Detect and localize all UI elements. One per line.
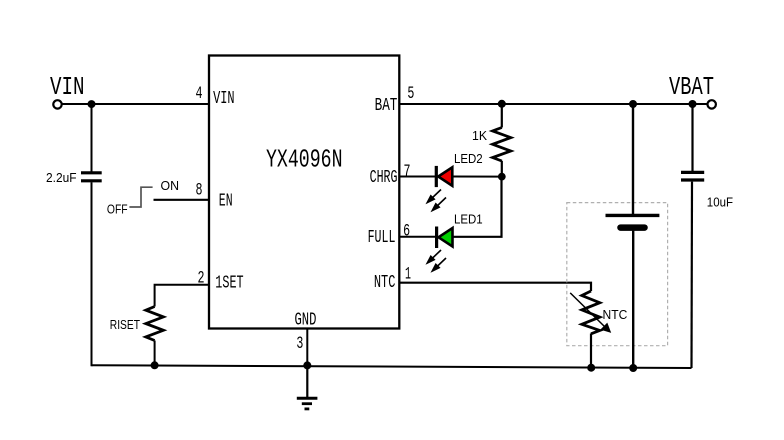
switch ON/OFF bracket	[129, 187, 152, 207]
wire battery bottom lead	[632, 231, 634, 368]
op-amp U1 : IC body YX4096N	[209, 56, 399, 329]
wire LED2 to junction	[452, 176, 502, 178]
svg-text:1: 1	[405, 264, 411, 284]
wire NTC pin 1 to thermistor	[399, 283, 591, 291]
wire FULL pin 6 to LED1	[399, 236, 435, 238]
svg-text:VIN: VIN	[213, 89, 235, 109]
svg-text:YX4096N: YX4096N	[266, 145, 343, 175]
svg-text:1K: 1K	[472, 129, 488, 143]
wire junction down to C1	[91, 104, 93, 172]
node VBAT terminal circle	[708, 100, 716, 108]
wire VIN terminal to pin 4	[62, 103, 209, 105]
resistor R1 1K zigzag	[493, 128, 511, 162]
node junction thermistor/rail	[587, 364, 595, 372]
svg-text:2.2uF: 2.2uF	[46, 171, 77, 185]
svg-text:8: 8	[196, 181, 203, 201]
svg-text:FULL: FULL	[368, 228, 396, 248]
node junction BAT/battery	[629, 100, 637, 108]
svg-text:LED2: LED2	[454, 152, 483, 166]
node junction battery/rail	[629, 364, 637, 372]
node junction RISET/rail	[151, 361, 159, 369]
wire GND pin 3 to rail	[306, 329, 308, 366]
wire BAT pin 5 to VBAT terminal	[399, 103, 707, 105]
wire battery top lead	[632, 104, 634, 214]
LED D2 emission arrows	[427, 190, 446, 211]
svg-text:6: 6	[403, 221, 410, 241]
wire CHRG pin 7 to LED2	[399, 176, 435, 178]
svg-text:EN: EN	[219, 191, 233, 211]
wire LED1 right then up to junction	[453, 177, 502, 237]
LED D1 emission arrows	[427, 250, 446, 271]
battery BT1 short thick plate	[621, 224, 645, 231]
LED D2 cathode bar	[435, 166, 438, 187]
capacitor C2 10uF plates	[681, 171, 704, 174]
svg-text:7: 7	[404, 162, 411, 182]
wire C2 bottom lead to rail	[690, 182, 693, 368]
node junction 1K/CHRG/FULL	[498, 173, 506, 181]
node junction BAT/1K	[498, 100, 506, 108]
wire C2 top lead	[691, 104, 693, 171]
wire 1SET pin 2	[155, 285, 209, 307]
svg-text:LED1: LED1	[454, 213, 483, 227]
ground symbol	[297, 365, 318, 409]
svg-text:2: 2	[198, 268, 205, 288]
svg-text:3: 3	[296, 334, 303, 354]
thermistor RT1 NTC zigzag	[582, 291, 600, 334]
wire EN pin 8	[154, 199, 210, 201]
thermistor diagonal arrow	[570, 293, 611, 333]
wire 1K bottom lead	[501, 161, 503, 177]
wire thermistor to rail	[590, 334, 592, 368]
svg-text:BAT: BAT	[375, 96, 398, 116]
svg-text:GND: GND	[295, 311, 317, 331]
node VIN terminal circle	[53, 100, 61, 108]
dashed battery-pack box	[567, 203, 668, 346]
svg-text:CHRG: CHRG	[370, 168, 398, 188]
LED D1 cathode bar	[435, 227, 438, 249]
capacitor C1 2.2uF plates	[81, 171, 102, 174]
svg-text:NTC: NTC	[374, 273, 396, 293]
svg-text:5: 5	[407, 84, 414, 104]
svg-text:NTC: NTC	[603, 308, 628, 322]
LED D1 green triangle	[439, 228, 453, 247]
node junction VIN/C1	[88, 100, 96, 108]
node junction pin3/rail	[303, 361, 311, 369]
svg-text:10uF: 10uF	[707, 196, 734, 210]
wire C1 down to ground rail	[91, 182, 93, 366]
svg-text:4: 4	[196, 84, 203, 104]
LED D2 red triangle	[438, 167, 452, 186]
resistor RISET zigzag	[146, 307, 164, 341]
ground rail wire	[92, 365, 692, 368]
svg-text:ON: ON	[161, 179, 180, 193]
wire 1K top lead	[501, 104, 503, 128]
node junction VBAT/C2	[689, 100, 697, 108]
svg-text:OFF: OFF	[107, 203, 128, 217]
svg-text:VIN: VIN	[50, 72, 85, 102]
svg-text:VBAT: VBAT	[669, 72, 714, 102]
svg-text:1SET: 1SET	[215, 273, 243, 293]
wire RISET to rail	[154, 341, 156, 366]
svg-text:RISET: RISET	[110, 318, 140, 332]
battery BT1 long plate	[606, 214, 660, 217]
